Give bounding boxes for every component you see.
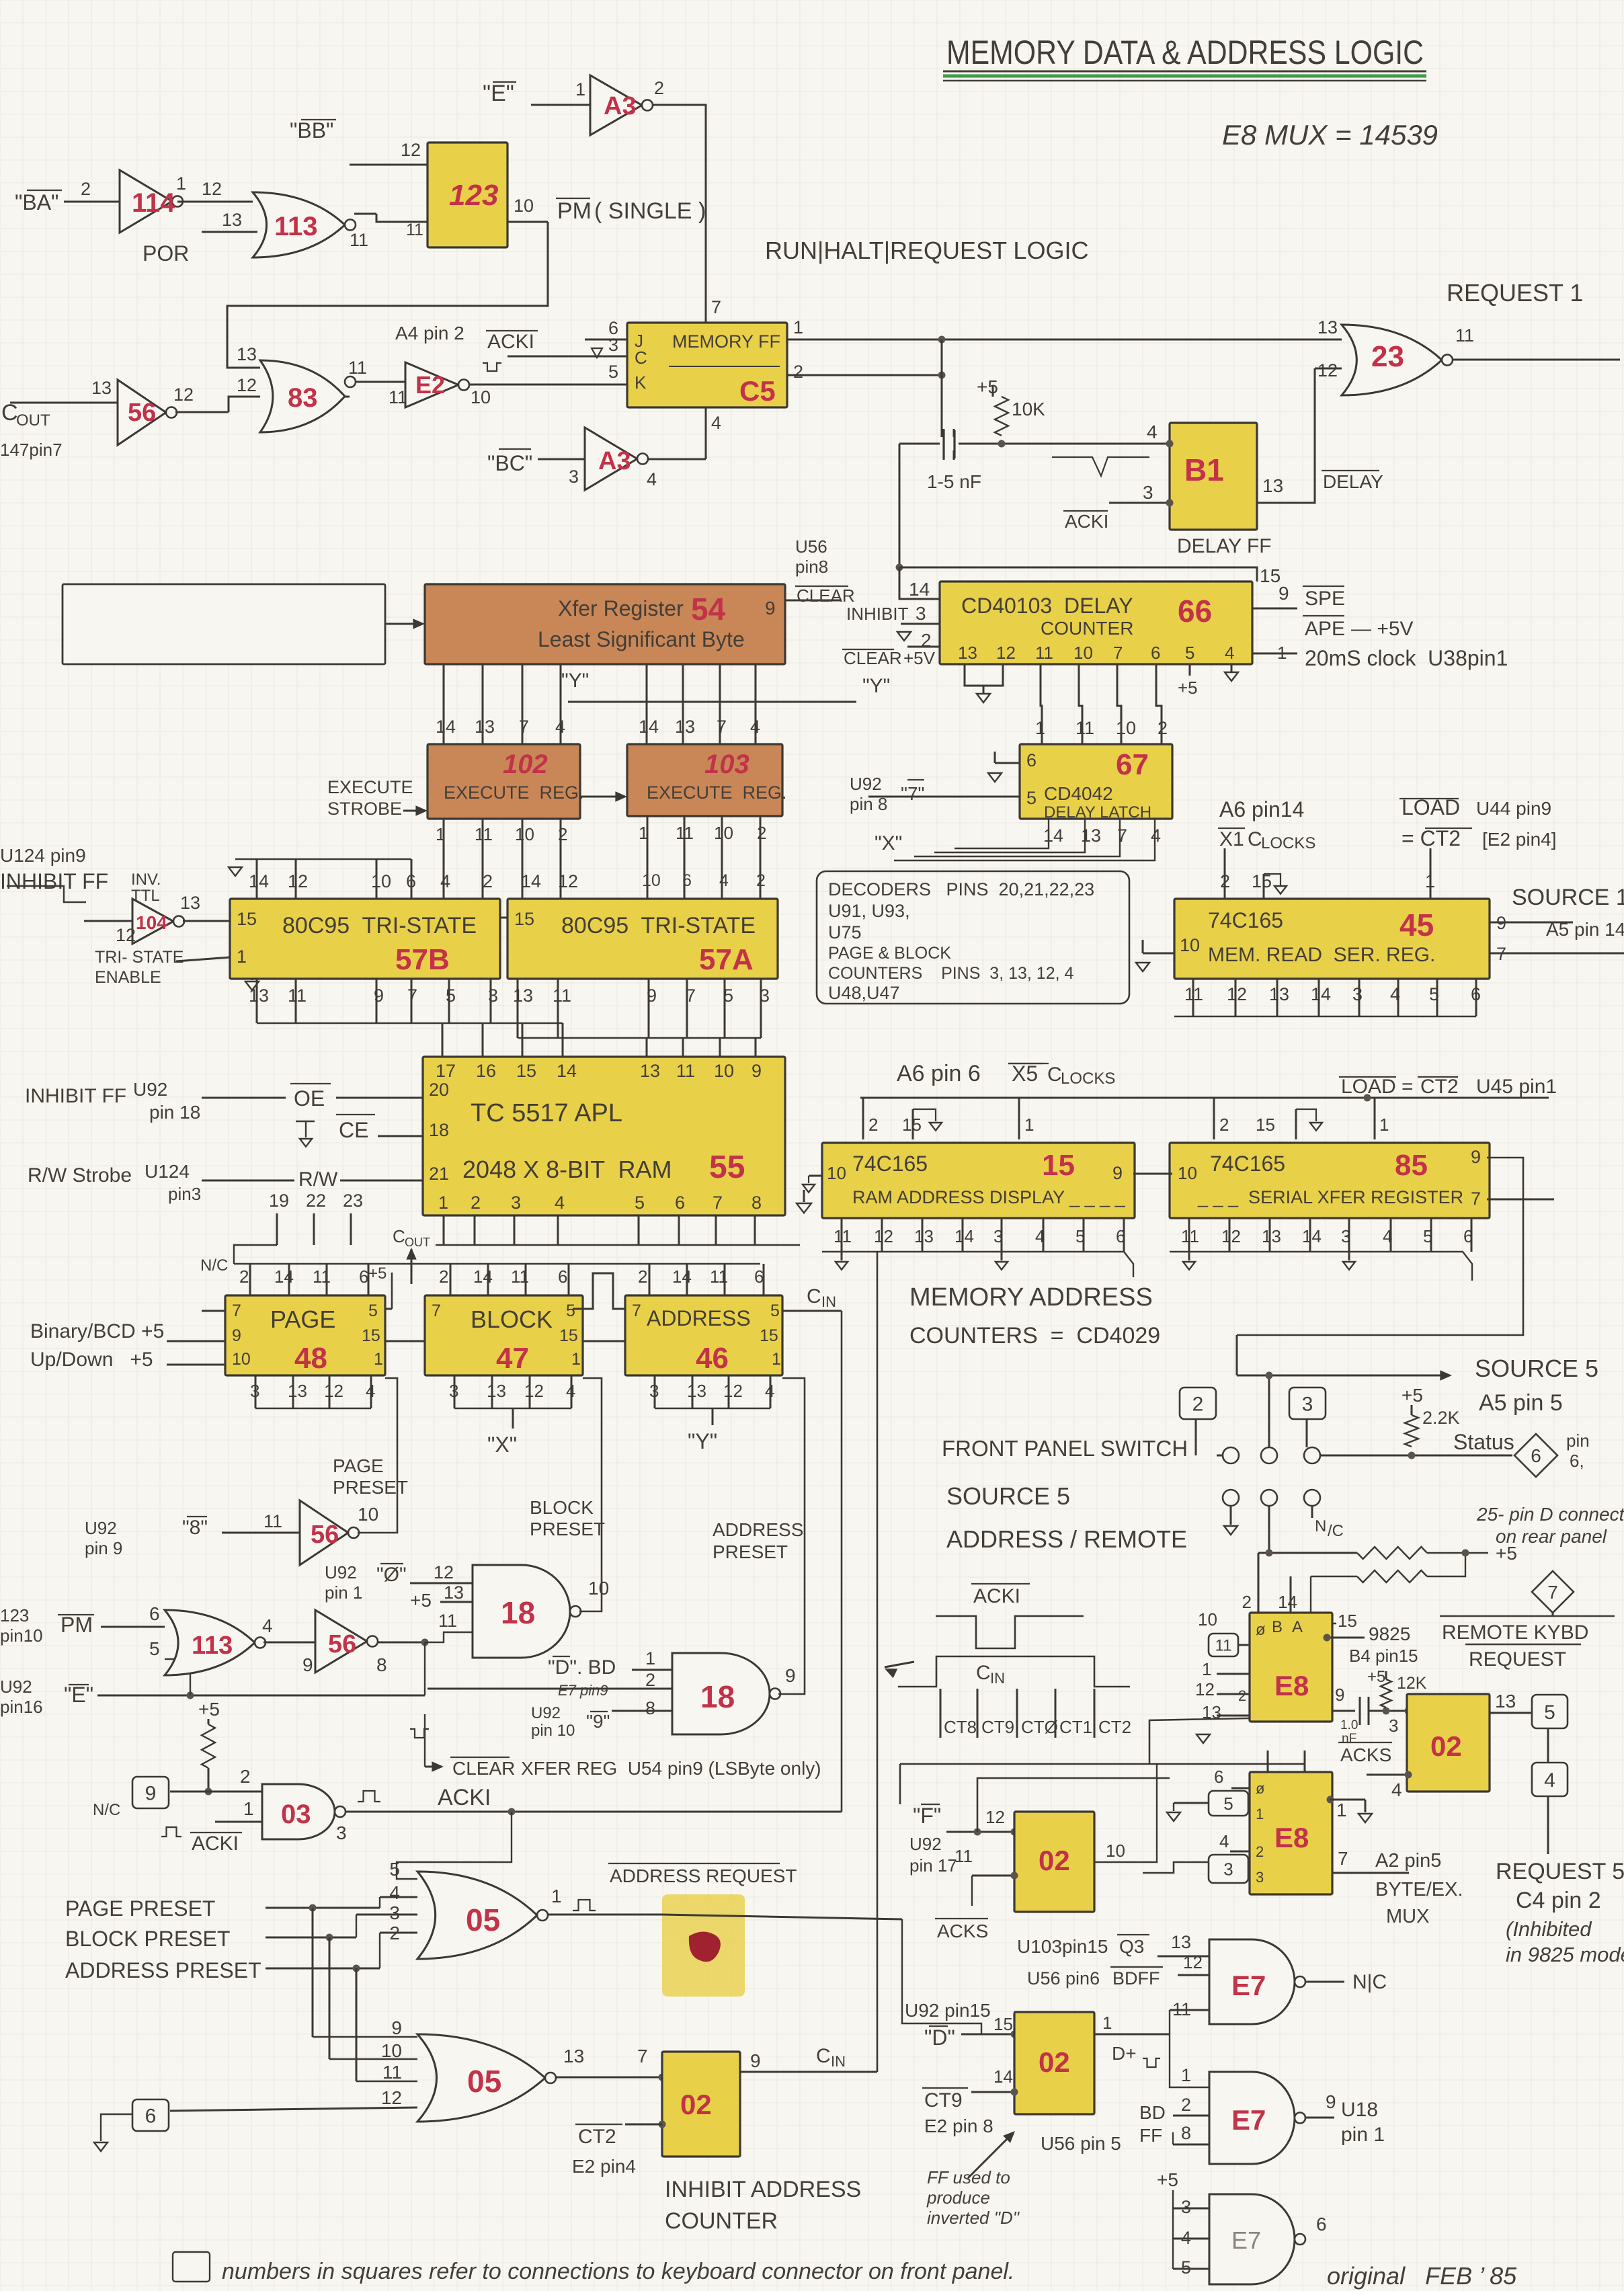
- svg-text:X5: X5: [1012, 1061, 1038, 1086]
- svg-text:10: 10: [358, 1504, 378, 1525]
- svg-text:MEM. READ SER. REG.: MEM. READ SER. REG.: [1208, 944, 1435, 966]
- svg-text:CT1: CT1: [1059, 1717, 1092, 1737]
- svg-text:12: 12: [874, 1226, 893, 1246]
- svg-text:9: 9: [232, 1326, 241, 1345]
- svg-text:3: 3: [336, 1822, 347, 1843]
- svg-text:(Inhibited: (Inhibited: [1506, 1917, 1592, 1941]
- svg-text:20: 20: [429, 1080, 449, 1100]
- svg-text:18: 18: [429, 1120, 449, 1140]
- svg-text:ADDRESS PRESET: ADDRESS PRESET: [65, 1958, 261, 1982]
- svg-text:PM: PM: [60, 1613, 93, 1637]
- svg-text:C: C: [1, 400, 18, 426]
- svg-text:=: =: [1402, 1076, 1414, 1098]
- svg-text:BLOCK: BLOCK: [530, 1497, 594, 1518]
- svg-text:X1: X1: [1219, 828, 1244, 850]
- svg-text:15: 15: [1256, 1115, 1275, 1135]
- svg-text:12: 12: [1183, 1952, 1203, 1972]
- svg-text:DELAY: DELAY: [1323, 471, 1383, 492]
- svg-text:13: 13: [180, 893, 200, 913]
- svg-text:pin 17: pin 17: [909, 1855, 957, 1876]
- svg-text:9: 9: [145, 1782, 157, 1804]
- svg-text:EXECUTE: EXECUTE: [327, 777, 413, 797]
- svg-text:REQUEST 5: REQUEST 5: [1496, 1859, 1624, 1884]
- svg-text:6: 6: [682, 871, 692, 890]
- svg-text:"D": "D": [924, 2025, 955, 2050]
- svg-text:13: 13: [237, 344, 257, 364]
- svg-text:C5: C5: [739, 375, 776, 407]
- svg-text:+5: +5: [1178, 678, 1198, 698]
- svg-text:"D". BD: "D". BD: [548, 1656, 616, 1679]
- svg-text:MEMORY DATA & ADDRESS LOGIC: MEMORY DATA & ADDRESS LOGIC: [946, 34, 1424, 71]
- svg-text:Q3: Q3: [1119, 1936, 1144, 1957]
- svg-text:10: 10: [1198, 1609, 1217, 1630]
- svg-text:03: 03: [281, 1800, 311, 1829]
- svg-text:"F": "F": [913, 1804, 941, 1828]
- svg-text:Least Significant Byte: Least Significant Byte: [538, 627, 745, 651]
- svg-text:U56 pin 5: U56 pin 5: [1041, 2133, 1121, 2154]
- svg-text:A5 pin 14: A5 pin 14: [1546, 919, 1624, 940]
- svg-text:14: 14: [909, 579, 930, 600]
- svg-text:nF: nF: [1342, 1732, 1356, 1746]
- svg-text:Up/Down +5: Up/Down +5: [30, 1349, 153, 1371]
- svg-text:( SINGLE ): ( SINGLE ): [594, 198, 706, 224]
- svg-text:12: 12: [324, 1381, 343, 1401]
- svg-text:14: 14: [1311, 984, 1331, 1004]
- svg-text:"E": "E": [64, 1683, 93, 1707]
- svg-text:13: 13: [513, 986, 533, 1006]
- svg-text:8: 8: [752, 1193, 762, 1213]
- svg-text:U48,U47: U48,U47: [828, 983, 900, 1003]
- svg-text:6,: 6,: [1570, 1451, 1584, 1471]
- svg-text:MEMORY ADDRESS: MEMORY ADDRESS: [909, 1283, 1153, 1312]
- svg-text:1: 1: [772, 1350, 781, 1369]
- svg-text:2: 2: [483, 871, 493, 891]
- svg-text:1-5 nF: 1-5 nF: [927, 471, 981, 492]
- svg-text:1: 1: [176, 173, 186, 194]
- svg-text:B1: B1: [1184, 452, 1224, 487]
- svg-text:"Y": "Y": [862, 675, 890, 697]
- svg-text:C4 pin 2: C4 pin 2: [1516, 1888, 1601, 1913]
- svg-text:10: 10: [371, 871, 391, 891]
- svg-text:A: A: [1292, 1618, 1303, 1636]
- svg-text:U45 pin1: U45 pin1: [1476, 1076, 1557, 1098]
- svg-text:12K: 12K: [1397, 1674, 1427, 1693]
- svg-text:A3: A3: [598, 447, 631, 475]
- svg-text:+5: +5: [1367, 1668, 1385, 1686]
- svg-text:11: 11: [288, 986, 307, 1006]
- svg-text:4: 4: [719, 871, 729, 890]
- svg-text:5: 5: [1181, 2257, 1191, 2278]
- svg-text:13: 13: [1262, 1226, 1281, 1246]
- svg-text:6: 6: [608, 318, 618, 338]
- svg-text:5: 5: [1544, 1701, 1555, 1724]
- svg-text:56: 56: [128, 399, 156, 427]
- svg-text:3: 3: [389, 1902, 400, 1923]
- svg-text:7: 7: [632, 1301, 641, 1320]
- svg-text:15: 15: [516, 1061, 536, 1081]
- svg-text:"Y": "Y": [688, 1429, 717, 1453]
- svg-text:6: 6: [145, 2105, 157, 2127]
- svg-text:5: 5: [1026, 788, 1037, 808]
- svg-text:11: 11: [676, 1061, 695, 1081]
- svg-text:PAGE: PAGE: [270, 1305, 335, 1333]
- svg-text:2: 2: [239, 1267, 249, 1287]
- svg-text:2: 2: [1242, 1592, 1252, 1612]
- svg-text:13: 13: [1269, 984, 1289, 1004]
- svg-text:1: 1: [575, 79, 585, 99]
- svg-text:10: 10: [588, 1578, 609, 1599]
- svg-text:COUNTERS = CD4029: COUNTERS = CD4029: [909, 1323, 1160, 1349]
- svg-text:— +5V: — +5V: [1351, 618, 1414, 640]
- svg-text:25- pin D connector: 25- pin D connector: [1476, 1504, 1624, 1525]
- svg-text:1: 1: [645, 1648, 655, 1669]
- svg-text:pin 10: pin 10: [531, 1722, 575, 1740]
- svg-text:4: 4: [1181, 2228, 1191, 2248]
- svg-text:pin16: pin16: [0, 1697, 43, 1717]
- svg-text:E7: E7: [1231, 2226, 1261, 2254]
- svg-text:19: 19: [269, 1191, 289, 1211]
- svg-text:CLEAR: CLEAR: [844, 648, 902, 668]
- svg-text:3: 3: [569, 467, 579, 487]
- svg-text:A6 pin14: A6 pin14: [1219, 797, 1304, 821]
- svg-text:pin: pin: [1566, 1431, 1590, 1451]
- svg-text:APE: APE: [1305, 618, 1345, 640]
- svg-text:K: K: [635, 372, 647, 393]
- svg-text:4: 4: [1544, 1769, 1555, 1792]
- svg-text:TRI- STATE: TRI- STATE: [95, 948, 184, 967]
- svg-text:Status: Status: [1453, 1430, 1514, 1454]
- svg-text:RAM ADDRESS DISPLAY _ _ _ _: RAM ADDRESS DISPLAY _ _ _ _: [852, 1187, 1126, 1207]
- svg-text:3: 3: [1181, 2197, 1191, 2217]
- svg-text:ø: ø: [1256, 1621, 1266, 1639]
- svg-text:15: 15: [902, 1115, 922, 1135]
- svg-text:A5 pin 5: A5 pin 5: [1479, 1390, 1563, 1416]
- svg-text:9: 9: [1471, 1147, 1481, 1167]
- svg-text:05: 05: [466, 1902, 500, 1937]
- svg-text:pin 8: pin 8: [850, 794, 887, 814]
- svg-text:numbers in squares refer to co: numbers in squares refer to connections …: [222, 2259, 1014, 2284]
- svg-text:14: 14: [1302, 1226, 1322, 1246]
- svg-text:SPE: SPE: [1305, 588, 1345, 610]
- svg-text:10: 10: [714, 823, 733, 843]
- svg-text:05: 05: [467, 2064, 501, 2099]
- svg-text:5: 5: [770, 1301, 780, 1320]
- svg-text:9: 9: [1278, 583, 1289, 604]
- svg-text:B4 pin15: B4 pin15: [1349, 1646, 1418, 1666]
- svg-text:U92: U92: [0, 1677, 32, 1697]
- svg-text:4: 4: [1151, 826, 1161, 846]
- svg-text:113: 113: [274, 212, 318, 241]
- svg-text:B: B: [1272, 1618, 1283, 1636]
- svg-text:U124: U124: [145, 1161, 190, 1182]
- svg-text:U92 pin15: U92 pin15: [905, 2000, 991, 2021]
- svg-text:6: 6: [149, 1603, 160, 1624]
- svg-text:EXECUTE REG.: EXECUTE REG.: [647, 782, 787, 803]
- svg-text:2: 2: [1181, 2095, 1191, 2115]
- svg-text:CT9: CT9: [924, 2089, 963, 2112]
- svg-text:7: 7: [1117, 826, 1127, 846]
- svg-text:produce: produce: [926, 2187, 990, 2208]
- svg-text:BDFF: BDFF: [1112, 1968, 1160, 1988]
- svg-text:U44 pin9: U44 pin9: [1476, 798, 1551, 819]
- svg-text:2: 2: [471, 1193, 481, 1213]
- svg-text:3: 3: [1302, 1393, 1313, 1415]
- svg-text:SOURCE 5: SOURCE 5: [946, 1482, 1070, 1510]
- svg-text:PAGE: PAGE: [333, 1455, 384, 1476]
- svg-text:11: 11: [1172, 1999, 1191, 2019]
- svg-text:3: 3: [1223, 1859, 1233, 1879]
- svg-text:CT9: CT9: [981, 1717, 1014, 1737]
- svg-text:CLEAR: CLEAR: [797, 586, 855, 606]
- svg-text:4: 4: [711, 413, 721, 433]
- svg-text:1: 1: [1024, 1115, 1034, 1135]
- svg-text:2: 2: [868, 1115, 878, 1135]
- svg-text:15: 15: [514, 909, 534, 929]
- svg-text:1: 1: [1336, 1800, 1347, 1820]
- svg-text:13: 13: [475, 717, 495, 737]
- svg-text:TC 5517 APL: TC 5517 APL: [471, 1099, 622, 1127]
- svg-text:OE: OE: [294, 1086, 325, 1111]
- svg-text:02: 02: [1039, 1845, 1070, 1876]
- svg-text:OUT: OUT: [405, 1236, 430, 1249]
- svg-text:12: 12: [401, 140, 421, 160]
- svg-text:6: 6: [1214, 1767, 1223, 1787]
- svg-text:inverted "D": inverted "D": [927, 2208, 1020, 2228]
- svg-text:13: 13: [675, 717, 695, 737]
- svg-text:INV.: INV.: [131, 871, 161, 889]
- svg-text:114: 114: [132, 188, 175, 218]
- svg-text:13: 13: [1171, 1932, 1191, 1952]
- svg-text:2048 X 8-BIT RAM: 2048 X 8-BIT RAM: [462, 1156, 672, 1183]
- svg-text:14: 14: [1043, 826, 1063, 846]
- svg-text:CT2: CT2: [578, 2126, 616, 2148]
- svg-text:15: 15: [1042, 1149, 1075, 1182]
- svg-text:11: 11: [382, 2062, 402, 2083]
- svg-text:REMOTE KYBD: REMOTE KYBD: [1442, 1621, 1588, 1644]
- svg-text:"X": "X": [487, 1433, 517, 1457]
- svg-text:FRONT PANEL SWITCH: FRONT PANEL SWITCH: [942, 1436, 1188, 1461]
- svg-text:CT2: CT2: [1098, 1717, 1131, 1737]
- svg-text:"9": "9": [586, 1711, 610, 1732]
- svg-text:U92: U92: [531, 1704, 561, 1722]
- svg-text:C: C: [393, 1226, 405, 1246]
- svg-text:1: 1: [639, 823, 648, 843]
- svg-text:14: 14: [955, 1226, 974, 1246]
- svg-text:REQUEST 1: REQUEST 1: [1447, 279, 1583, 307]
- svg-text:7: 7: [713, 1193, 723, 1213]
- svg-text:102: 102: [503, 750, 548, 779]
- svg-text:11: 11: [1455, 325, 1474, 346]
- svg-text:22: 22: [306, 1191, 326, 1211]
- svg-text:5: 5: [368, 1301, 378, 1320]
- svg-text:14: 14: [993, 2066, 1013, 2087]
- svg-text:U92: U92: [325, 1562, 357, 1582]
- svg-text:U92: U92: [133, 1079, 167, 1100]
- svg-text:13: 13: [563, 2046, 584, 2066]
- svg-text:PAGE & BLOCK: PAGE & BLOCK: [828, 944, 951, 963]
- svg-text:pin 1: pin 1: [325, 1582, 362, 1603]
- svg-text:11: 11: [475, 824, 493, 844]
- svg-text:STROBE: STROBE: [327, 799, 402, 819]
- svg-text:3: 3: [1352, 984, 1363, 1004]
- svg-text:2: 2: [558, 824, 567, 844]
- svg-text:CT8: CT8: [944, 1717, 977, 1737]
- svg-text:"BA": "BA": [15, 190, 58, 214]
- svg-text:8: 8: [376, 1654, 387, 1675]
- svg-text:55: 55: [709, 1150, 745, 1185]
- svg-text:12: 12: [1221, 1226, 1241, 1246]
- svg-text:PRESET: PRESET: [530, 1519, 605, 1539]
- svg-text:N/C: N/C: [93, 1801, 120, 1819]
- svg-text:RUN|HALT|REQUEST LOGIC: RUN|HALT|REQUEST LOGIC: [765, 237, 1088, 264]
- svg-text:U92: U92: [909, 1834, 942, 1854]
- svg-text:BLOCK PRESET: BLOCK PRESET: [65, 1927, 230, 1951]
- svg-text:103: 103: [704, 750, 749, 779]
- svg-text:IN: IN: [831, 2053, 846, 2070]
- svg-text:5: 5: [1185, 643, 1194, 663]
- svg-text:ENABLE: ENABLE: [95, 968, 161, 987]
- svg-text:pin 9: pin 9: [85, 1538, 122, 1558]
- svg-text:13: 13: [1495, 1691, 1516, 1712]
- svg-text:POR: POR: [143, 241, 189, 266]
- svg-text:11: 11: [1215, 1637, 1232, 1655]
- svg-text:4: 4: [1147, 421, 1158, 442]
- svg-text:13: 13: [1317, 317, 1338, 337]
- svg-text:PM: PM: [557, 198, 592, 224]
- svg-text:7: 7: [232, 1301, 241, 1320]
- svg-text:ACKS: ACKS: [937, 1921, 988, 1941]
- svg-text:A2 pin5: A2 pin5: [1375, 1850, 1441, 1872]
- svg-text:ADDRESS REQUEST: ADDRESS REQUEST: [610, 1865, 797, 1886]
- svg-text:6: 6: [1316, 2214, 1327, 2235]
- svg-text:7: 7: [1471, 1189, 1481, 1209]
- svg-text:XFER REG U54 pin9 (LSByte onl: XFER REG U54 pin9 (LSByte only): [521, 1758, 821, 1779]
- svg-text:13: 13: [640, 1061, 660, 1081]
- svg-text:7: 7: [1338, 1848, 1348, 1869]
- svg-text:104: 104: [136, 912, 167, 933]
- svg-text:13: 13: [288, 1381, 307, 1401]
- svg-text:10: 10: [714, 1061, 734, 1081]
- svg-text:E7: E7: [1231, 2104, 1266, 2136]
- svg-text:47: 47: [496, 1342, 529, 1375]
- svg-text:11: 11: [263, 1511, 282, 1531]
- svg-text:10K: 10K: [1012, 399, 1045, 419]
- svg-text:N: N: [1315, 1517, 1326, 1535]
- svg-text:02: 02: [680, 2089, 712, 2120]
- svg-text:"8": "8": [182, 1517, 208, 1539]
- svg-text:U92: U92: [850, 774, 882, 794]
- svg-text:11: 11: [553, 986, 571, 1006]
- svg-text:13: 13: [687, 1381, 706, 1401]
- svg-text:9: 9: [1335, 1685, 1344, 1705]
- svg-text:U92: U92: [85, 1518, 117, 1538]
- svg-text:4: 4: [555, 717, 565, 737]
- svg-text:pin 18: pin 18: [149, 1102, 200, 1123]
- svg-text:6: 6: [1531, 1445, 1541, 1466]
- svg-text:COUNTERS PINS 3, 13, 12, 4: COUNTERS PINS 3, 13, 12, 4: [828, 964, 1074, 983]
- svg-text:7: 7: [519, 717, 529, 737]
- svg-text:14: 14: [557, 1061, 577, 1081]
- svg-text:2.2K: 2.2K: [1422, 1408, 1460, 1428]
- svg-text:10: 10: [1073, 643, 1093, 663]
- svg-text:1: 1: [1102, 2013, 1112, 2033]
- svg-text:18: 18: [700, 1679, 735, 1714]
- svg-text:2: 2: [1192, 1393, 1204, 1415]
- svg-text:R/W Strobe: R/W Strobe: [28, 1164, 132, 1187]
- svg-text:5: 5: [1223, 1794, 1233, 1814]
- svg-text:4: 4: [1391, 1779, 1402, 1800]
- svg-text:+5: +5: [1496, 1543, 1517, 1564]
- svg-text:ACKI: ACKI: [973, 1585, 1020, 1607]
- svg-text:5: 5: [608, 362, 618, 382]
- svg-text:D+: D+: [1112, 2043, 1137, 2064]
- svg-text:C: C: [976, 1662, 991, 1684]
- svg-text:12: 12: [434, 1562, 454, 1582]
- svg-text:E2: E2: [415, 371, 445, 399]
- svg-text:E2 pin4: E2 pin4: [572, 2156, 636, 2177]
- svg-text:"E": "E": [483, 81, 514, 106]
- svg-text:CE: CE: [339, 1118, 368, 1142]
- svg-text:E8: E8: [1274, 1670, 1309, 1701]
- svg-text:74C165: 74C165: [1208, 908, 1283, 932]
- svg-text:CD4042: CD4042: [1044, 783, 1113, 804]
- svg-text:1: 1: [551, 1886, 562, 1906]
- svg-text:11: 11: [438, 1611, 457, 1631]
- svg-text:3: 3: [1389, 1716, 1398, 1736]
- svg-text:BYTE/EX.: BYTE/EX.: [1375, 1879, 1463, 1900]
- svg-text:CD40103 DELAY: CD40103 DELAY: [961, 594, 1133, 618]
- svg-text:113: 113: [192, 1632, 233, 1660]
- svg-text:12: 12: [524, 1381, 544, 1401]
- svg-text:7: 7: [1113, 643, 1123, 663]
- svg-text:67: 67: [1116, 748, 1149, 781]
- svg-text:INHIBIT ADDRESS: INHIBIT ADDRESS: [665, 2177, 861, 2202]
- svg-text:10: 10: [381, 2040, 402, 2061]
- svg-text:pin10: pin10: [0, 1625, 43, 1646]
- svg-text:74C165: 74C165: [1210, 1152, 1285, 1176]
- svg-text:11: 11: [1075, 718, 1094, 738]
- svg-text:56: 56: [328, 1630, 356, 1658]
- svg-text:N/C: N/C: [200, 1256, 228, 1275]
- svg-text:7: 7: [711, 297, 721, 317]
- svg-text:12: 12: [985, 1807, 1005, 1827]
- svg-text:56: 56: [311, 1521, 339, 1549]
- svg-text:PAGE PRESET: PAGE PRESET: [65, 1896, 215, 1921]
- svg-text:4: 4: [262, 1615, 273, 1636]
- svg-text:A3: A3: [604, 92, 637, 120]
- svg-text:INHIBIT FF: INHIBIT FF: [25, 1085, 126, 1107]
- svg-text:85: 85: [1395, 1149, 1428, 1182]
- svg-text:CT2: CT2: [1420, 1076, 1459, 1098]
- svg-text:02: 02: [1430, 1730, 1462, 1762]
- svg-text:+5: +5: [977, 376, 998, 397]
- svg-text:U56 pin6: U56 pin6: [1027, 1968, 1100, 1988]
- svg-text:11: 11: [348, 358, 367, 378]
- svg-text:2: 2: [638, 1267, 647, 1287]
- svg-text:12: 12: [723, 1381, 743, 1401]
- svg-text:+5: +5: [198, 1699, 220, 1720]
- svg-text:13: 13: [222, 210, 242, 230]
- svg-text:ACKI: ACKI: [487, 331, 534, 353]
- svg-text:U103pin15: U103pin15: [1017, 1936, 1108, 1957]
- svg-text:7: 7: [637, 2046, 648, 2066]
- svg-text:14: 14: [274, 1267, 294, 1287]
- svg-text:8: 8: [1181, 2123, 1191, 2143]
- svg-text:02: 02: [1039, 2046, 1070, 2078]
- svg-text:3: 3: [1143, 482, 1153, 503]
- svg-text:3: 3: [488, 986, 498, 1006]
- svg-text:15: 15: [1260, 565, 1281, 586]
